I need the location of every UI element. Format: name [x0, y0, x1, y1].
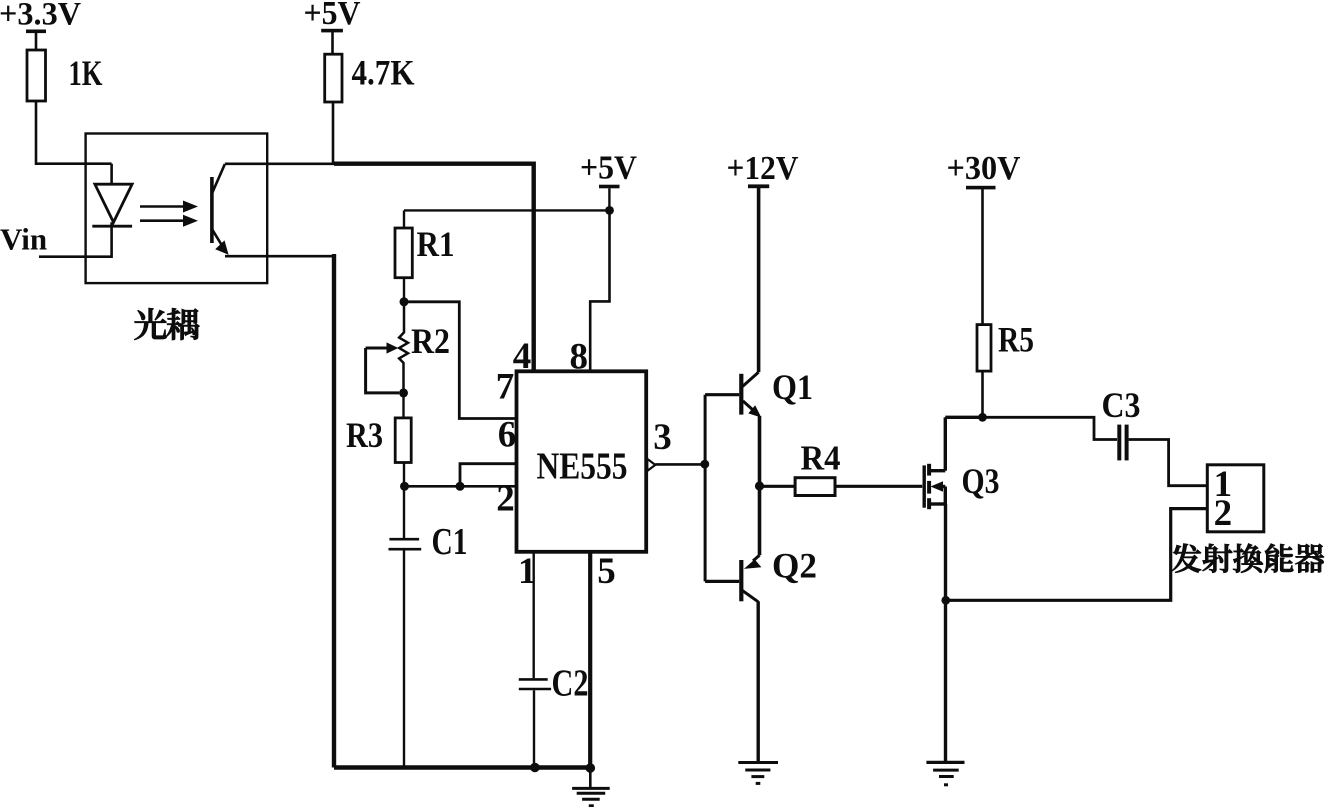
label C2	[552, 663, 589, 705]
optocoupler LED cathode lead to Vin	[39, 222, 112, 256]
optocoupler LED cathode bar	[92, 225, 132, 228]
wire Q1 emitter to output node	[758, 416, 762, 486]
wire +12V to Q1 collector	[757, 188, 761, 372]
svg-text:C1: C1	[432, 521, 468, 563]
wire +5V bar to 4.7K	[331, 32, 334, 54]
node +5V junction dot	[605, 206, 614, 215]
node ground rail junction dot	[586, 763, 596, 773]
potentiometer R2 zigzag body	[399, 302, 408, 393]
resistor 4.7K	[325, 54, 342, 102]
svg-text:Vin: Vin	[0, 222, 47, 257]
capacitor C2	[519, 679, 551, 689]
pin number 8	[570, 337, 589, 378]
wire output node down to Q2 emitter	[758, 486, 762, 555]
resistor R5	[977, 325, 991, 372]
wire +3.3V bar to R 1K	[35, 33, 38, 50]
label C3	[1102, 385, 1141, 425]
svg-text:4.7K: 4.7K	[352, 53, 415, 93]
input label Vin	[0, 222, 47, 257]
power +12V label	[727, 150, 799, 187]
node push-pull output junction dot	[755, 481, 764, 490]
wire +30V to R5	[981, 189, 984, 325]
wire base rail Q1-Q2	[704, 395, 707, 582]
svg-text:1K: 1K	[69, 53, 103, 93]
svg-text:+30V: +30V	[947, 150, 1021, 187]
ground rail (bottom bus)	[334, 765, 590, 769]
wire Q3 drain up to R5 node	[944, 417, 947, 470]
label Q3	[962, 461, 1000, 501]
svg-text:R2: R2	[411, 321, 450, 361]
wire C1 to ground rail	[403, 550, 405, 767]
svg-text:7: 7	[496, 367, 515, 408]
power +5V terminal bar (over 4.7K)	[321, 29, 343, 33]
wire 1K to LED anode	[36, 101, 112, 164]
power +5V label (at NE555 pin 8)	[580, 150, 637, 187]
label C1	[432, 521, 468, 563]
svg-text:R5: R5	[998, 320, 1034, 360]
potentiometer R2 wiper arrow	[366, 342, 399, 353]
optocoupler phototransistor emitter with arrow	[212, 229, 229, 255]
transducer pin number 2	[1214, 493, 1233, 534]
optocoupler light arrow lower	[140, 215, 198, 227]
resistor R1	[395, 228, 412, 278]
wire output node to R4	[760, 485, 796, 488]
power +12V terminal bar	[748, 184, 769, 188]
ground symbol (Q2)	[738, 763, 778, 784]
node D junction dot (R3/C1/pin2)	[400, 482, 409, 491]
pin number 1	[518, 551, 537, 592]
NE555 pin 1 lead with C2	[533, 552, 535, 679]
power +3.3V label	[0, 0, 81, 33]
label 发射换能器 (transmit transducer)	[1172, 544, 1324, 573]
label Q1	[772, 367, 813, 407]
svg-text:Q1: Q1	[772, 367, 813, 407]
transducer box (发射换能器)	[1207, 465, 1264, 532]
value label 1K	[69, 53, 103, 93]
svg-text:+5V: +5V	[304, 0, 361, 32]
power +5V label (over 4.7K)	[304, 0, 361, 32]
transistor Q3 (N-MOSFET)	[924, 464, 945, 509]
resistor R3	[395, 418, 411, 463]
svg-text:6: 6	[498, 415, 517, 456]
resistor 1K (R at +3.3V)	[27, 50, 46, 101]
wire opto emitter down to ground rail (thick bus)	[332, 254, 336, 768]
label R5	[998, 320, 1034, 360]
resistor R4	[795, 478, 835, 496]
node Q3 source / transducer return junction dot	[941, 596, 950, 605]
svg-text:2: 2	[496, 479, 515, 520]
svg-text:3: 3	[653, 417, 672, 458]
label R4	[801, 439, 841, 478]
optocoupler LED triangle	[95, 184, 132, 222]
optocoupler U (box)	[86, 134, 268, 284]
wire drain node left to Q3	[945, 416, 982, 419]
node E junction dot (pin2/pin6 tie)	[456, 482, 465, 491]
label R1	[417, 224, 455, 264]
wire +5V line down to R1	[403, 210, 405, 228]
wire transducer pin 2 return to Q3 source node	[946, 509, 1208, 601]
wire node C to R3	[402, 393, 404, 418]
svg-text:NE555: NE555	[537, 446, 628, 488]
wire node D down to C1	[403, 486, 405, 538]
svg-text:R3: R3	[346, 415, 383, 455]
wire R1 to node B	[403, 278, 405, 302]
wire pin 3 to driver node	[655, 463, 704, 466]
pin number 3	[653, 417, 672, 458]
wire node D to NE555 pin 2	[405, 485, 517, 488]
transducer pin number 1	[1214, 464, 1233, 505]
svg-text:8: 8	[570, 337, 589, 378]
optocoupler phototransistor base bar	[210, 177, 214, 243]
wire C3 to transducer pin 1	[1129, 440, 1208, 486]
NE555 pin 3 output triangle	[647, 459, 655, 471]
optocoupler light arrow upper	[140, 201, 198, 213]
capacitor C1	[389, 539, 422, 549]
wire opto emitter to ground bus	[225, 255, 334, 258]
value label 4.7K	[352, 53, 415, 93]
svg-text:+5V: +5V	[580, 150, 637, 187]
power +5V terminal bar (at NE555)	[599, 185, 620, 189]
label Q2	[772, 546, 817, 586]
NE555 pin 5 lead to ground (thick)	[588, 552, 592, 768]
label 光耦 (optocoupler)	[135, 308, 200, 340]
svg-text:4: 4	[513, 336, 532, 377]
node B junction dot (R1/R2/pin7)	[400, 297, 409, 306]
wire R5 to drain node	[981, 371, 984, 417]
wire node E up to NE555 pin 6	[460, 464, 517, 487]
wire Q3 source down to ground	[944, 504, 947, 761]
power +30V terminal bar	[966, 186, 996, 190]
op-amp/timer U1 NE555 box	[517, 371, 647, 552]
wire R4 to Q3 gate	[835, 485, 922, 488]
node pin1/C2 rail junction dot	[530, 763, 540, 773]
svg-text:5: 5	[597, 551, 616, 592]
svg-text:C2: C2	[552, 663, 589, 705]
pin number 4	[513, 336, 532, 377]
pin number 5	[597, 551, 616, 592]
svg-text:Q2: Q2	[772, 546, 817, 586]
capacitor C3	[1119, 425, 1126, 461]
pin number 6	[498, 415, 517, 456]
wire +5V node to R1 top	[404, 209, 610, 211]
wire Q2 collector to ground	[757, 601, 760, 761]
wire +5V node to NE555 pin 8	[590, 210, 609, 371]
wire +5V bar down to node	[608, 188, 610, 210]
transistor Q1 (NPN)	[741, 372, 761, 417]
wire drain node right to C3	[983, 417, 1118, 439]
ground symbol (main rail)	[572, 768, 610, 806]
svg-text:R4: R4	[801, 439, 841, 478]
pin number 7	[496, 367, 515, 408]
wire opto collector to 4.7K node	[225, 163, 334, 166]
wire Q1 base	[705, 393, 739, 396]
wire R3 to node D	[403, 463, 405, 487]
transistor Q2 (PNP)	[741, 555, 761, 602]
node driver input junction dot	[700, 460, 709, 469]
ground symbol (Q3 source)	[926, 762, 964, 784]
power +3.3V terminal bar	[26, 30, 46, 34]
label NE555	[537, 446, 628, 488]
label R3	[346, 415, 383, 455]
potentiometer R2 wiper return loop	[366, 348, 399, 393]
wire node A to NE555 pin 4 (thick bus)	[334, 164, 534, 372]
node C junction dot (R2/R3)	[399, 388, 408, 397]
label R2	[411, 321, 450, 361]
svg-text:+3.3V: +3.3V	[0, 0, 81, 33]
wire Q2 base	[705, 580, 739, 583]
svg-text:R1: R1	[417, 224, 455, 264]
wire C2 to ground rail	[533, 690, 535, 767]
svg-text:Q3: Q3	[962, 461, 1000, 501]
svg-text:C3: C3	[1102, 385, 1141, 425]
power +30V label	[947, 150, 1021, 187]
wire node B to NE555 pin 7	[404, 302, 517, 419]
wire 4.7K to collector node	[332, 102, 335, 164]
optocoupler LED anode lead	[110, 164, 113, 185]
svg-text:+12V: +12V	[727, 150, 799, 187]
optocoupler phototransistor collector	[212, 164, 225, 193]
svg-text:2: 2	[1214, 493, 1233, 534]
node R5/drain/C3 junction dot	[978, 413, 987, 422]
pin number 2	[496, 479, 515, 520]
